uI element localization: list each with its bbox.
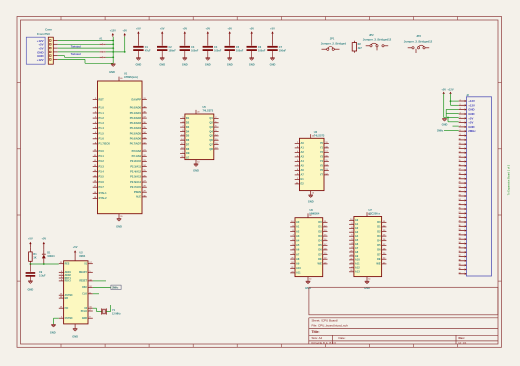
svg-text:12: 12 xyxy=(458,147,460,149)
svg-text:A2: A2 xyxy=(296,229,300,233)
svg-text:GND: GND xyxy=(82,318,87,320)
svg-text:8: 8 xyxy=(460,130,461,132)
svg-text:Q2: Q2 xyxy=(209,121,213,125)
svg-text:PSEN: PSEN xyxy=(134,190,141,194)
wire RST net xyxy=(30,263,59,265)
svg-text:36: 36 xyxy=(458,251,460,253)
svg-text:31: 31 xyxy=(458,229,460,231)
svg-text:A7: A7 xyxy=(296,252,300,256)
svg-text:P3.5: P3.5 xyxy=(99,175,105,179)
svg-text:Y4: Y4 xyxy=(320,159,324,163)
pin 28 VCC of U7 xyxy=(367,212,370,216)
svg-text:20: 20 xyxy=(197,111,199,113)
svg-text:20: 20 xyxy=(312,136,314,138)
connector J1 power input xyxy=(48,37,57,64)
svg-text:WE: WE xyxy=(376,262,380,266)
ground at J2 xyxy=(442,119,448,127)
pin 40 VCC of U1 xyxy=(119,77,122,81)
svg-text:Jumper_2_Bridged: Jumper_2_Bridged xyxy=(321,42,347,46)
svg-text:+5V: +5V xyxy=(122,29,127,33)
power +5V for D1 xyxy=(41,237,46,250)
pins U7 left side (address) xyxy=(349,218,360,273)
svg-text:P3.0: P3.0 xyxy=(99,149,105,153)
title block xyxy=(309,318,498,345)
svg-text:21: 21 xyxy=(458,186,460,188)
wire GND to J2 pin 7 xyxy=(453,125,459,127)
svg-text:U5: U5 xyxy=(203,105,207,109)
svg-text:D7: D7 xyxy=(377,252,381,256)
svg-text:A2: A2 xyxy=(355,226,359,230)
svg-text:RES: RES xyxy=(65,264,70,266)
svg-text:10: 10 xyxy=(458,139,460,141)
svg-text:XTAL2: XTAL2 xyxy=(99,196,108,200)
ground for U5 xyxy=(193,164,199,173)
svg-text:E1: E1 xyxy=(301,177,305,181)
svg-text:P1.0: P1.0 xyxy=(99,106,105,110)
ground for C3 xyxy=(182,58,188,67)
svg-text:P1.4: P1.4 xyxy=(99,126,105,130)
RAM U7 body (62C256) xyxy=(354,217,382,277)
svg-text:P1.6: P1.6 xyxy=(99,137,105,141)
sheet PSU net list box xyxy=(26,37,45,64)
svg-text:A12: A12 xyxy=(355,266,360,270)
svg-text:U2: U2 xyxy=(79,251,83,255)
svg-text:38: 38 xyxy=(458,259,460,261)
ground for U2 xyxy=(72,329,78,339)
svg-text:+12V: +12V xyxy=(110,29,116,33)
svg-text:P3.1: P3.1 xyxy=(99,154,105,158)
label 2MHz at J2 xyxy=(437,129,444,132)
capacitor C3 100nF xyxy=(180,46,199,58)
svg-text:RDY2: RDY2 xyxy=(65,281,72,283)
svg-text:A6: A6 xyxy=(301,168,305,172)
svg-text:A6: A6 xyxy=(296,248,300,252)
svg-text:25: 25 xyxy=(458,203,460,205)
wire +12V return from J1 pin 6 xyxy=(58,59,113,63)
svg-text:E2: E2 xyxy=(301,182,305,186)
svg-text:22: 22 xyxy=(458,190,460,192)
svg-text:GND: GND xyxy=(72,334,78,338)
svg-text:+12V: +12V xyxy=(447,88,453,92)
svg-text:A11: A11 xyxy=(296,271,301,275)
svg-text:GND: GND xyxy=(50,331,56,335)
power +5V for C1 xyxy=(136,26,141,45)
svg-text:To Expansion Board 1 of 2: To Expansion Board 1 of 2 xyxy=(507,164,511,195)
svg-text:100nF: 100nF xyxy=(191,50,199,53)
ground (power entry) xyxy=(109,64,115,74)
pins U6 right side (data, control) xyxy=(318,220,328,266)
svg-text:D4: D4 xyxy=(318,239,322,243)
svg-text:5: 5 xyxy=(460,117,461,119)
svg-text:D5: D5 xyxy=(377,243,381,247)
svg-text:A1: A1 xyxy=(296,225,300,229)
svg-text:D6: D6 xyxy=(318,248,322,252)
svg-text:GND: GND xyxy=(364,286,370,290)
svg-text:GND: GND xyxy=(249,63,255,67)
power +5V for U2 xyxy=(73,245,78,261)
svg-text:READY: READY xyxy=(79,271,88,274)
svg-text:P3.4: P3.4 xyxy=(99,170,105,174)
capacitor C5 100nF xyxy=(225,46,244,58)
svg-text:100nF: 100nF xyxy=(169,50,177,53)
svg-text:+5V: +5V xyxy=(136,26,141,30)
svg-text:A5: A5 xyxy=(296,243,300,247)
svg-text:Y3: Y3 xyxy=(320,155,324,159)
svg-text:JP1: JP1 xyxy=(330,37,335,41)
svg-text:U7: U7 xyxy=(369,208,373,212)
latch U5 body (74LS373) xyxy=(185,114,214,160)
svg-text:Jumper_3_Bridged12: Jumper_3_Bridged12 xyxy=(404,40,433,44)
wire RESET output of U2 xyxy=(93,280,106,282)
power +5V for R1 xyxy=(28,237,33,248)
svg-text:ALE: ALE xyxy=(136,195,141,199)
svg-text:Twisted: Twisted xyxy=(71,45,81,49)
svg-text:8284: 8284 xyxy=(79,254,85,258)
svg-text:P2.0/A8: P2.0/A8 xyxy=(132,149,142,153)
svg-text:26: 26 xyxy=(458,208,460,210)
svg-text:Sheet: /CPU Board/: Sheet: /CPU Board/ xyxy=(312,319,339,323)
wire Twisted pair A from J1 pin 2 xyxy=(58,43,100,45)
pin 14 GND of U7 xyxy=(367,277,371,281)
pins U1 right side (EA, P0, P2, PSEN, ALE) xyxy=(130,97,147,198)
svg-text:+5V: +5V xyxy=(441,88,446,92)
pins U2 left side xyxy=(59,262,73,320)
resistor R1 1K xyxy=(29,247,38,264)
svg-text:P0.7/AD7: P0.7/AD7 xyxy=(130,142,142,146)
svg-text:+5V: +5V xyxy=(182,26,187,30)
svg-text:47uF: 47uF xyxy=(145,50,151,53)
svg-text:Y7: Y7 xyxy=(320,173,324,177)
power +5V (power entry) xyxy=(122,29,127,52)
svg-text:100nF: 100nF xyxy=(236,50,244,53)
svg-text:GND: GND xyxy=(109,70,115,74)
svg-text:D3: D3 xyxy=(377,234,381,238)
svg-text:13: 13 xyxy=(458,151,460,153)
wire GND pins of J2 xyxy=(446,109,459,117)
svg-text:P3.6: P3.6 xyxy=(99,180,105,184)
svg-text:A3: A3 xyxy=(355,230,359,234)
power +5V for C4 xyxy=(205,26,210,45)
svg-text:WE: WE xyxy=(318,262,322,266)
svg-text:GND: GND xyxy=(182,63,188,67)
svg-text:U1: U1 xyxy=(124,72,128,76)
power +5V at J2 xyxy=(441,88,458,118)
svg-text:A7: A7 xyxy=(355,246,359,250)
svg-text:A0: A0 xyxy=(296,220,300,224)
svg-text:EFI: EFI xyxy=(65,298,69,300)
svg-text:P1.1: P1.1 xyxy=(99,111,105,115)
svg-text:A3: A3 xyxy=(301,155,305,159)
svg-text:D6: D6 xyxy=(186,138,190,142)
svg-text:Y0: Y0 xyxy=(320,141,324,145)
svg-text:P2.2/A10: P2.2/A10 xyxy=(130,159,141,163)
svg-text:74LS573: 74LS573 xyxy=(314,134,325,138)
svg-text:P2.4/A12: P2.4/A12 xyxy=(130,170,141,174)
svg-text:2: 2 xyxy=(460,104,461,106)
svg-text:EA/VPP: EA/VPP xyxy=(131,97,141,101)
svg-text:15: 15 xyxy=(458,160,460,162)
jumper JP1 Jumper_2_Bridged xyxy=(321,37,347,51)
svg-text:F/C: F/C xyxy=(65,308,69,310)
svg-text:1K: 1K xyxy=(33,257,36,260)
label U6 HM6264 xyxy=(310,208,320,215)
svg-text:GND: GND xyxy=(227,63,233,67)
svg-text:A4: A4 xyxy=(355,234,359,238)
svg-text:Y1: Y1 xyxy=(320,146,324,150)
svg-text:CSYNC: CSYNC xyxy=(65,318,73,320)
jumper JP3 Jumper_3_Bridged23 xyxy=(404,34,433,53)
svg-text:D1: D1 xyxy=(186,116,190,120)
ground for C7 xyxy=(270,58,276,67)
svg-text:A0: A0 xyxy=(301,141,305,145)
capacitor C2 100nF xyxy=(157,46,176,58)
svg-text:P2.3/A11: P2.3/A11 xyxy=(130,164,141,168)
svg-text:100nF: 100nF xyxy=(258,50,266,53)
svg-text:Q6: Q6 xyxy=(209,138,213,142)
svg-text:Rev:: Rev: xyxy=(459,336,465,340)
svg-text:LE: LE xyxy=(186,156,190,160)
text note Conn / From PSU xyxy=(37,28,52,37)
svg-text:28: 28 xyxy=(458,216,460,218)
RAM U6 body (HM6264) xyxy=(295,218,323,277)
svg-text:GND: GND xyxy=(468,108,474,112)
svg-text:D1: D1 xyxy=(377,225,381,229)
svg-text:JP2: JP2 xyxy=(369,33,374,37)
power +5V for C2 xyxy=(160,26,165,45)
wire OSC to 2MHz label xyxy=(93,286,111,288)
svg-text:A3: A3 xyxy=(296,234,300,238)
svg-text:OE: OE xyxy=(186,151,190,155)
capacitor C1 47uF xyxy=(133,46,151,58)
svg-text:GND: GND xyxy=(28,287,34,291)
pins U5 right side (Q outputs) xyxy=(209,116,218,151)
svg-text:+5V: +5V xyxy=(270,26,275,30)
svg-text:GND: GND xyxy=(305,286,311,290)
svg-text:GND: GND xyxy=(205,63,211,67)
svg-text:2MHz: 2MHz xyxy=(112,287,119,290)
svg-text:A4: A4 xyxy=(296,239,300,243)
label 2MHz (global) xyxy=(111,285,121,290)
ground for U6 xyxy=(305,281,311,290)
ground left of U2 xyxy=(50,325,56,335)
pin VCC of U3 xyxy=(311,134,314,138)
pins U5 left side (D inputs, OE, LE) xyxy=(180,116,190,159)
svg-text:P0.1/AD1: P0.1/AD1 xyxy=(130,111,142,115)
capacitor C6 100nF xyxy=(247,46,266,58)
svg-text:Size: A4: Size: A4 xyxy=(312,336,323,340)
pin GND of U2 xyxy=(74,324,76,328)
svg-text:+5V: +5V xyxy=(73,245,78,249)
svg-text:35: 35 xyxy=(458,247,460,249)
svg-text:D7: D7 xyxy=(318,252,322,256)
pin 20 GND of U1 xyxy=(119,214,122,219)
pin GND of U3 xyxy=(311,191,314,195)
svg-text:D0: D0 xyxy=(318,220,322,224)
svg-text:D1: D1 xyxy=(318,225,322,229)
capacitor C4 100nF xyxy=(203,46,222,58)
diode D1 1N914 xyxy=(42,250,55,264)
power +5V for C3 xyxy=(182,26,187,45)
svg-text:P0.0/AD0: P0.0/AD0 xyxy=(130,106,142,110)
wire 2MHz to J2 pin 8 xyxy=(444,129,459,131)
svg-text:JP3: JP3 xyxy=(416,34,421,38)
svg-text:A10: A10 xyxy=(355,258,360,262)
svg-text:10: 10 xyxy=(197,161,199,163)
ground for C5 xyxy=(227,58,233,67)
svg-text:D2: D2 xyxy=(318,229,322,233)
svg-text:P0.3/AD3: P0.3/AD3 xyxy=(130,121,142,125)
text note To Expansion Board (vertical) xyxy=(507,164,511,195)
wire crystal Y1 to X2 xyxy=(106,305,110,312)
svg-text:OE: OE xyxy=(377,257,381,261)
svg-text:23: 23 xyxy=(458,195,460,197)
svg-text:P0.5/AD5: P0.5/AD5 xyxy=(130,131,142,135)
label Twisted (net A) xyxy=(71,45,81,49)
svg-text:Jumper_3_Bridged12: Jumper_3_Bridged12 xyxy=(363,38,392,42)
wire Twisted pair B from J1 pin 4 xyxy=(58,51,100,53)
wire +12V from J1 pin 1 xyxy=(58,40,114,42)
svg-text:D3: D3 xyxy=(186,125,190,129)
svg-text:A8: A8 xyxy=(355,250,359,254)
svg-text:+5V: +5V xyxy=(28,237,33,241)
svg-text:D2: D2 xyxy=(377,229,381,233)
svg-text:P2.6/A14: P2.6/A14 xyxy=(130,180,141,184)
svg-text:33: 33 xyxy=(458,238,460,240)
wire CLK stub of U2 xyxy=(93,293,99,295)
svg-text:A13: A13 xyxy=(355,270,360,274)
svg-text:41: 41 xyxy=(458,272,460,274)
pins U2 right side xyxy=(79,262,93,320)
svg-text:P1.2: P1.2 xyxy=(99,116,105,120)
wire A1 to GND rail xyxy=(106,56,114,58)
ground for C9 xyxy=(28,281,34,292)
svg-text:7: 7 xyxy=(460,126,461,128)
svg-text:D6: D6 xyxy=(377,248,381,252)
latch U3 body (74LS573) xyxy=(300,138,325,190)
svg-text:40: 40 xyxy=(120,78,122,80)
label U2 8284 xyxy=(79,251,85,259)
pins U3 left side xyxy=(295,141,305,186)
svg-text:P1.3: P1.3 xyxy=(99,121,105,125)
svg-text:RST: RST xyxy=(99,97,105,101)
svg-text:GND: GND xyxy=(270,63,276,67)
clock generator U2 body (8284) xyxy=(64,261,88,324)
svg-text:Q7: Q7 xyxy=(209,142,213,146)
svg-text:40: 40 xyxy=(458,268,460,270)
svg-text:From PSU: From PSU xyxy=(37,32,50,36)
svg-text:10: 10 xyxy=(312,193,314,195)
svg-text:+5V: +5V xyxy=(205,26,210,30)
svg-text:GND: GND xyxy=(308,200,314,204)
svg-text:XTAL1: XTAL1 xyxy=(99,191,108,195)
ground for U1 xyxy=(116,219,122,229)
svg-text:12 MHz: 12 MHz xyxy=(112,313,121,316)
svg-text:P3.7: P3.7 xyxy=(99,185,105,189)
wire GND from J1 pin 5 xyxy=(58,56,100,58)
svg-text:+5V: +5V xyxy=(249,26,254,30)
pins U7 right side (data, control) xyxy=(376,220,386,266)
svg-text:100nF: 100nF xyxy=(214,50,222,53)
svg-text:U6: U6 xyxy=(310,208,314,212)
pin 14 GND of U6 xyxy=(308,277,312,281)
svg-text:A1: A1 xyxy=(355,222,359,226)
svg-text:A1: A1 xyxy=(301,146,305,150)
svg-text:Q3: Q3 xyxy=(209,125,213,129)
svg-text:Id: 1/1: Id: 1/1 xyxy=(459,341,467,345)
svg-text:A5: A5 xyxy=(355,238,359,242)
svg-text:P1.7/SCK: P1.7/SCK xyxy=(99,142,111,146)
svg-text:AT89S(xxx): AT89S(xxx) xyxy=(124,75,138,79)
wire CSYNC to ground xyxy=(54,318,59,324)
power +5V for C6 xyxy=(249,26,254,45)
label U1 AT89S(xxx) xyxy=(124,72,138,79)
pins U6 left side (address) xyxy=(290,220,301,275)
svg-text:GND: GND xyxy=(136,63,142,67)
svg-text:P1.5: P1.5 xyxy=(99,131,105,135)
svg-text:P0.2/AD2: P0.2/AD2 xyxy=(130,116,142,120)
capacitor C7 100nF xyxy=(267,46,286,58)
svg-text:Y5: Y5 xyxy=(320,164,324,168)
svg-text:28: 28 xyxy=(309,215,311,217)
svg-text:D5: D5 xyxy=(318,243,322,247)
pin 10 GND of U5 xyxy=(196,160,199,164)
wire X1 to crystal Y1 xyxy=(93,308,102,311)
power +12V at J2 xyxy=(447,88,458,106)
svg-text:Date:: Date: xyxy=(339,336,346,340)
pin 20 VCC of U5 xyxy=(196,110,199,114)
svg-text:9: 9 xyxy=(460,134,461,136)
svg-text:P3.2: P3.2 xyxy=(99,159,105,163)
jumper JP2 Jumper_3_Bridged12 xyxy=(363,33,392,51)
svg-text:D0: D0 xyxy=(377,220,381,224)
svg-text:A2: A2 xyxy=(301,150,305,154)
capacitor C9 3.3uF xyxy=(26,264,46,281)
svg-text:RDY1: RDY1 xyxy=(65,278,72,280)
svg-text:ASYNC: ASYNC xyxy=(65,294,73,297)
svg-text:1: 1 xyxy=(460,100,461,102)
svg-text:D7: D7 xyxy=(186,142,190,146)
svg-text:+5V: +5V xyxy=(41,237,46,241)
svg-text:P2.7/A15: P2.7/A15 xyxy=(130,185,141,189)
svg-text:28: 28 xyxy=(368,214,370,216)
svg-text:16: 16 xyxy=(458,164,460,166)
svg-text:AEN2: AEN2 xyxy=(65,274,72,277)
connector J2 expansion sheet xyxy=(458,94,491,276)
svg-text:A9: A9 xyxy=(355,254,359,258)
ground for C1 xyxy=(136,58,142,67)
svg-text:30: 30 xyxy=(458,225,460,227)
svg-text:A10: A10 xyxy=(296,266,301,270)
svg-text:RESET: RESET xyxy=(79,281,87,283)
svg-text:D4: D4 xyxy=(186,129,190,133)
svg-text:A5: A5 xyxy=(301,164,305,168)
label U5 74LS373 xyxy=(203,105,214,112)
svg-text:74LS373: 74LS373 xyxy=(203,108,214,112)
label Twisted (net B) xyxy=(71,52,81,56)
svg-text:+5V: +5V xyxy=(160,26,165,30)
svg-text:19: 19 xyxy=(458,177,460,179)
svg-text:A0: A0 xyxy=(355,218,359,222)
svg-text:27: 27 xyxy=(458,212,460,214)
wire +5V to J2 pin 6 xyxy=(447,117,459,122)
svg-text:20: 20 xyxy=(458,182,460,184)
svg-text:18: 18 xyxy=(458,173,460,175)
power +5V for C7 xyxy=(270,26,275,45)
svg-text:U3: U3 xyxy=(314,130,318,134)
svg-text:2MHz: 2MHz xyxy=(468,129,476,133)
pins U1 left side (RST, P1, P3, XTAL) xyxy=(93,97,110,200)
svg-text:2MHz: 2MHz xyxy=(437,129,444,132)
